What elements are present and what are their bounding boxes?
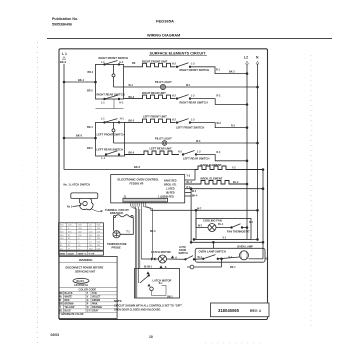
svg-text:SURFACE ELEMENTS CIRCUIT: SURFACE ELEMENTS CIRCUIT [150, 52, 207, 56]
svg-text:BR-2: BR-2 [88, 71, 94, 74]
oven control module EOC [111, 175, 185, 203]
wire L1 feed rows 3-4 [64, 137, 96, 139]
latch switch location inset [64, 182, 91, 186]
heating element LEFT FRONT UNIT [143, 115, 167, 119]
wire to fan [151, 209, 258, 211]
auto door switch [179, 246, 189, 255]
svg-text:CAUTION 3A: CAUTION 3A [74, 284, 88, 287]
svg-text:BK-5: BK-5 [76, 134, 83, 138]
svg-text:RIGHT FRONT SWITCH: RIGHT FRONT SWITCH [180, 68, 210, 72]
svg-text:BK-1: BK-1 [230, 266, 236, 269]
svg-text:CIRCUIT SHOWN WITH ALL CONTROL: CIRCUIT SHOWN WITH ALL CONTROLS SET TO "… [114, 304, 183, 308]
svg-text:L2: L2 [244, 56, 248, 60]
title: SURFACE ELEMENTS CIRCUIT [150, 52, 207, 56]
pilot contact P right front [113, 64, 115, 74]
contact L1-H1 left rear [105, 154, 107, 156]
L2 supply arrow [246, 61, 249, 64]
svg-text:BK-1: BK-1 [78, 78, 85, 82]
svg-text:WARNING: WARNING [79, 258, 93, 262]
connector pair [151, 258, 155, 261]
part number box [211, 303, 270, 317]
svg-text:LEFT FRONT SWITCH: LEFT FRONT SWITCH [176, 126, 204, 130]
warning box [59, 256, 117, 318]
svg-text:BK: BK [60, 293, 64, 295]
connector oval BL/W-1 [73, 278, 89, 283]
svg-text:RIGHT REAR SWITCH: RIGHT REAR SWITCH [97, 92, 125, 96]
svg-text:°F YR¹: °F YR¹ [88, 252, 95, 255]
note text [114, 299, 183, 312]
svg-text:DSI RED: DSI RED [164, 195, 174, 198]
pilot stub right rear [96, 99, 124, 109]
svg-text:LEFT FRONT SWITCH: LEFT FRONT SWITCH [97, 132, 125, 136]
wire fan box bottom to N [194, 238, 258, 240]
svg-text:BL-2: BL-2 [233, 181, 239, 184]
svg-text:PROBE: PROBE [112, 245, 121, 249]
latch motor detail inset box [135, 269, 180, 299]
svg-text:H-2: H-2 [172, 94, 177, 97]
svg-text:W-1: W-1 [129, 84, 134, 87]
vertical wire to bake element junction [262, 170, 264, 259]
wire latch motor row [141, 258, 151, 260]
door switch lower branch [190, 265, 194, 269]
svg-text:BROIL YEL: BROIL YEL [164, 183, 177, 186]
svg-text:BR-4: BR-4 [87, 126, 93, 129]
N supply arrow [256, 61, 259, 64]
heating element BAKE ELEMENT [201, 163, 223, 167]
svg-text:SWITCH: SWITCH [179, 252, 189, 255]
triangle node A inset [146, 271, 149, 274]
svg-text:BL-3: BL-3 [187, 181, 193, 184]
svg-text:OVEN DOOR CLOSED AND UNLOCKED.: OVEN DOOR CLOSED AND UNLOCKED. [114, 308, 161, 312]
svg-text:BK-6: BK-6 [60, 60, 67, 64]
L1 supply arrow [63, 57, 66, 60]
svg-text:L 1: L 1 [62, 52, 67, 56]
node L1 label [62, 52, 67, 56]
contact L2-H2 right rear [176, 98, 178, 100]
svg-text:TEMPERATURE: TEMPERATURE [107, 242, 127, 246]
oven lamp switch [199, 250, 226, 254]
svg-text:H-2: H-2 [172, 63, 177, 66]
wire bake vertical [194, 170, 196, 181]
svg-text:G: G [87, 300, 89, 302]
svg-text:LEFT REAR UNIT: LEFT REAR UNIT [150, 147, 172, 151]
wire EOC to lamp circuit [190, 189, 192, 243]
scan artifact dotted line right [311, 55, 312, 330]
triangle node B inset [147, 284, 150, 287]
svg-text:NOTE:: NOTE: [114, 299, 122, 303]
wire L1 run to oven section [64, 169, 195, 171]
wire left front to L2 [190, 123, 247, 128]
svg-text:GAGE: GAGE [67, 252, 74, 255]
cooling fan motor [208, 224, 216, 232]
heating element RIGHT REAR UNIT [142, 91, 166, 95]
svg-text:VIOLET: VIOLET [92, 297, 101, 299]
svg-text:SW-1: SW-1 [167, 297, 173, 299]
pilot light lower [155, 137, 172, 141]
node L2 label [244, 56, 248, 60]
svg-text:OVEN LAMP: OVEN LAMP [237, 245, 253, 249]
wire left rear to L2 [196, 155, 247, 161]
switch LEFT REAR SWITCH label [97, 147, 123, 151]
wire label BK-6 [60, 60, 67, 64]
svg-text:5995386496: 5995386496 [52, 23, 72, 27]
svg-text:R-1: R-1 [216, 69, 221, 72]
wire probe loop [113, 218, 133, 235]
pilot light upper [155, 80, 172, 84]
svg-text:BROWN: BROWN [65, 304, 74, 306]
latch motor coil loop [150, 287, 154, 291]
svg-text:WIRE: WIRE [59, 253, 65, 255]
svg-text:RIGHT FRONT SWITCH: RIGHT FRONT SWITCH [99, 56, 129, 60]
temperature probe chart cell values [60, 225, 101, 251]
svg-text:FED365 VR: FED365 VR [130, 182, 144, 186]
triangle node A [171, 255, 174, 258]
svg-text:GRAY: GRAY [92, 310, 99, 313]
svg-text:(8) RED: (8) RED [166, 191, 175, 194]
svg-text:GREEN: GREEN [92, 300, 101, 302]
oven lamp [237, 245, 253, 249]
svg-text:DISCONNECT POWER BEFORE: DISCONNECT POWER BEFORE [66, 266, 104, 269]
svg-text:W-1: W-1 [198, 256, 203, 259]
contact L1-H1 left front [104, 122, 106, 124]
wires from EOC connector down [131, 202, 146, 207]
svg-text:BR-3: BR-3 [87, 90, 93, 93]
svg-text:H-2: H-2 [178, 150, 183, 153]
svg-text:R-2: R-2 [217, 94, 222, 97]
svg-text:H-1: H-1 [120, 101, 125, 104]
svg-text:02/03: 02/03 [51, 333, 60, 337]
svg-text:PILOT LIGHT: PILOT LIGHT [155, 80, 172, 84]
svg-text:W-7: W-7 [197, 208, 202, 211]
EOC terminal stubs [185, 179, 195, 181]
svg-text:H-2: H-2 [172, 118, 177, 121]
svg-text:No 1: No 1 [67, 206, 73, 209]
svg-text:BL/W-1: BL/W-1 [144, 267, 153, 269]
svg-text:TAN: TAN [92, 292, 97, 295]
node N label [256, 56, 259, 60]
svg-text:BR: BR [60, 304, 64, 306]
svg-text:318045065: 318045065 [218, 308, 240, 313]
temperature probe chart (grid) [59, 223, 104, 250]
svg-text:RIGHT REAR UNIT: RIGHT REAR UNIT [142, 91, 166, 95]
L2 bus wire [246, 64, 248, 240]
svg-text:LATCH MOTOR: LATCH MOTOR [151, 250, 171, 254]
svg-text:ELECTRONIC OVEN CONTROL: ELECTRONIC OVEN CONTROL [118, 178, 160, 182]
svg-text:10: 10 [149, 335, 153, 339]
svg-text:BK-2: BK-2 [134, 165, 141, 169]
svg-text:BR-5: BR-5 [87, 147, 93, 150]
svg-text:R-1: R-1 [249, 221, 254, 224]
contact L1-H1 right rear [104, 98, 106, 100]
svg-text:W-1: W-1 [186, 84, 191, 87]
EOC connector strip J1 [124, 196, 165, 199]
cooling fan box [196, 219, 251, 240]
svg-text:No. 1 LATCH SWITCH: No. 1 LATCH SWITCH [64, 182, 91, 186]
wire label BK-1 [78, 78, 85, 82]
wire label BK-5 [76, 134, 83, 138]
svg-text:BK-2: BK-2 [229, 71, 235, 74]
svg-text:FED365A: FED365A [156, 20, 174, 24]
heating element LEFT REAR UNIT [150, 147, 172, 151]
svg-text:GY: GY [87, 311, 91, 313]
switch LEFT FRONT SWITCH (body box) [96, 122, 125, 156]
wire right rear to L2 [190, 99, 247, 105]
svg-text:BAKE RED: BAKE RED [164, 179, 177, 182]
svg-text:COOLING FAN: COOLING FAN [203, 218, 222, 222]
heating element BROIL ELEMENT [201, 177, 223, 181]
svg-text:BK-4: BK-4 [192, 195, 198, 198]
wire fan box left to W-7 wire [195, 210, 197, 227]
wire pilot to N [114, 86, 161, 88]
svg-text:WHITE: WHITE [65, 297, 73, 299]
svg-text:W-2: W-2 [217, 122, 222, 125]
fan thermostat contact [231, 227, 233, 229]
pilot contact P left front [113, 122, 115, 128]
svg-text:Publication No.: Publication No. [52, 17, 78, 21]
svg-text:R-3: R-3 [231, 125, 236, 128]
scan artifact dotted line left [22, 42, 38, 346]
heating element RIGHT FRONT UNIT [142, 60, 168, 64]
svg-text:BAKE ELEMENT: BAKE ELEMENT [201, 163, 223, 167]
N bus wire [257, 64, 259, 239]
svg-text:BK-3: BK-3 [150, 231, 156, 233]
switch RIGHT FRONT SWITCH (body box) [99, 56, 129, 60]
svg-text:RED: RED [65, 300, 70, 302]
wire pilot lower to N [114, 142, 163, 144]
latch motor [151, 250, 171, 254]
scan artifact dots bottom [205, 342, 265, 344]
svg-text:TEMP °C: TEMP °C [77, 253, 87, 255]
svg-text:W-3: W-3 [196, 140, 201, 143]
svg-text:PINK: PINK [92, 304, 98, 306]
svg-text:O: O [87, 307, 89, 309]
svg-text:BROIL ELEMENT: BROIL ELEMENT [201, 177, 223, 181]
wire L1 feed rows 1-2 [64, 81, 96, 83]
svg-text:BK: BK [132, 62, 136, 65]
svg-text:WIRING DIAGRAM: WIRING DIAGRAM [147, 34, 180, 38]
svg-text:PILOT LIGHT: PILOT LIGHT [155, 137, 172, 141]
oven lamp enclosure [195, 248, 265, 262]
main diagram border [59, 49, 268, 320]
svg-text:COLOR CODE: COLOR CODE [79, 288, 97, 292]
contact L2-H2 left rear [182, 154, 184, 156]
svg-text:REV: 4: REV: 4 [250, 309, 261, 313]
contact L2-H2 right front [176, 66, 178, 68]
svg-text:LEFT REAR SWITCH: LEFT REAR SWITCH [97, 147, 123, 151]
temperature probe [113, 231, 120, 238]
thermal circuit breaker [105, 208, 129, 215]
svg-text:RIGHT REAR SWITCH: RIGHT REAR SWITCH [180, 101, 208, 105]
triangle node B [159, 265, 162, 268]
wire label H-1 [132, 62, 136, 65]
L1 bus wire [63, 64, 65, 170]
wire right front to L2 [190, 67, 247, 74]
svg-text:SERVICING UNIT: SERVICING UNIT [75, 270, 96, 273]
svg-text:H-1: H-1 [120, 61, 125, 64]
svg-text:BREAKER: BREAKER [110, 211, 123, 215]
svg-text:LEFT REAR SWITCH: LEFT REAR SWITCH [183, 157, 209, 161]
svg-text:ORANGE: ORANGE [92, 306, 103, 309]
svg-text:OVEN LAMP SWITCH: OVEN LAMP SWITCH [199, 250, 226, 254]
contact L1-H1 right front [104, 64, 106, 66]
svg-text:W-4: W-4 [192, 190, 197, 193]
svg-text:R-4: R-4 [217, 151, 222, 154]
svg-text:LEFT FRONT UNIT: LEFT FRONT UNIT [143, 115, 167, 119]
svg-text:W-1: W-1 [198, 225, 203, 228]
contact blade inset [140, 275, 149, 283]
svg-text:L1 RED: L1 RED [166, 187, 175, 190]
svg-text:BLACK: BLACK [65, 292, 73, 295]
svg-text:FAN THERMOSTAT: FAN THERMOSTAT [227, 230, 250, 233]
svg-text:R-4: R-4 [187, 186, 192, 189]
svg-text:BL/W-1: BL/W-1 [77, 281, 86, 283]
svg-text:BL-1: BL-1 [218, 223, 224, 226]
header rule [47, 38, 332, 40]
color code table [59, 286, 117, 288]
svg-text:H-1: H-1 [120, 118, 125, 121]
svg-text:BLUE: BLUE [65, 311, 72, 313]
svg-text:* ALTERNATE COLOR: * ALTERNATE COLOR [60, 313, 84, 316]
svg-text:YELLOW: YELLOW [65, 307, 76, 309]
switch RIGHT REAR SWITCH label [97, 92, 125, 96]
probe chart footer row [59, 251, 104, 255]
contact L2-H2 left front [176, 122, 178, 124]
header: publication number [52, 17, 78, 27]
svg-text:BK: BK [265, 257, 269, 260]
